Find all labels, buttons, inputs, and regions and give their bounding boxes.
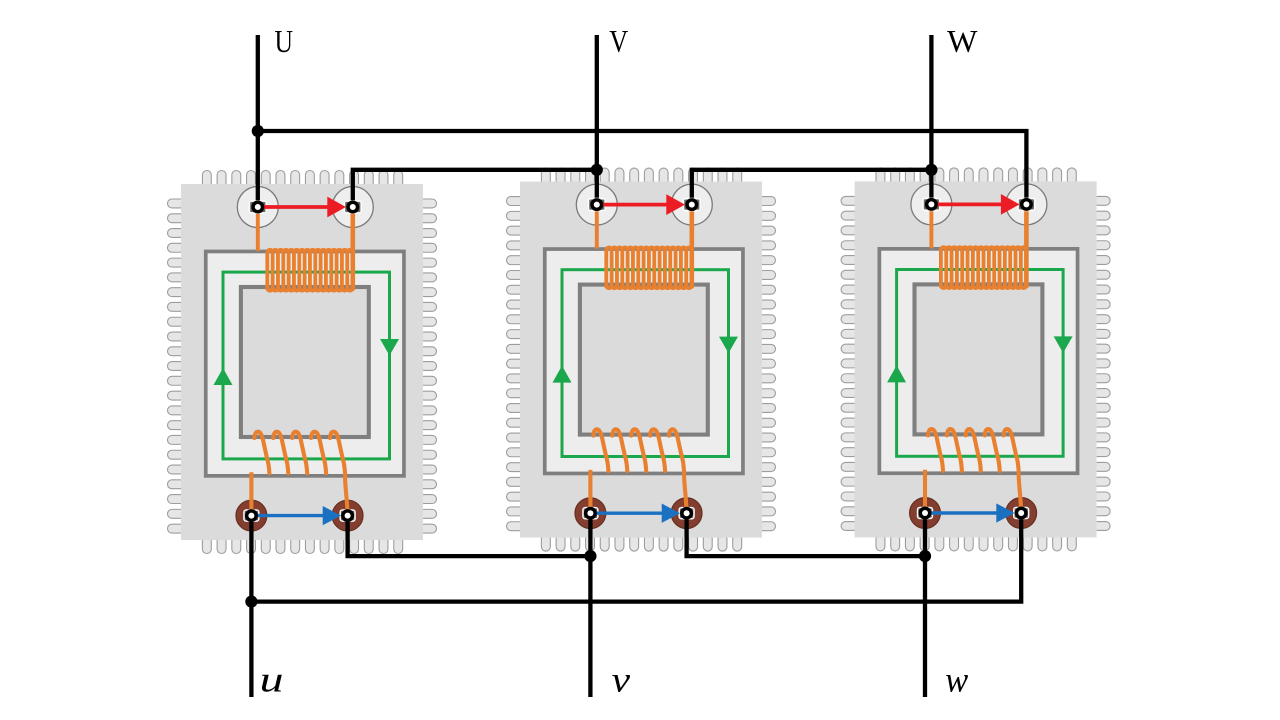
flux path loop T3 (green): [897, 270, 1064, 457]
primary winding lead right T1: [350, 207, 355, 289]
flux path loop T1 (green): [223, 272, 390, 459]
core T3 lamination teeth: [841, 168, 1110, 551]
junction U/bus: [252, 125, 264, 137]
node T3 primary left: [925, 198, 938, 211]
primary voltage arrow T2 (red): [597, 194, 685, 215]
terminal pad T2 primary left: [588, 198, 606, 212]
node T3 secondary left: [919, 507, 932, 520]
core T2 body: [520, 182, 762, 538]
core T1 center limb window: [241, 287, 369, 437]
terminal pad T3 primary left: [922, 198, 940, 212]
svg-text:u: u: [260, 660, 284, 700]
secondary winding lead left T1: [249, 472, 253, 515]
svg-text:V: V: [609, 23, 628, 59]
primary winding lead right T3: [1024, 204, 1029, 286]
wire T3 secondary to u: [251, 513, 1021, 602]
wire phase u output: [249, 516, 253, 697]
terminal pad T3 secondary right: [1013, 507, 1029, 520]
svg-text:w: w: [945, 660, 968, 700]
flux arrow up (left limb) T3: [887, 365, 906, 382]
junction w node: [919, 550, 931, 562]
node T1 secondary left: [245, 509, 258, 522]
primary winding lead left T1: [256, 207, 260, 251]
svg-text:v: v: [612, 660, 630, 700]
junction V node: [591, 164, 603, 176]
primary voltage arrow T1 (red): [258, 197, 346, 218]
secondary winding lead left T2: [588, 470, 592, 513]
flux arrow down (right limb) T2: [719, 337, 738, 354]
node T3 secondary right: [1015, 507, 1028, 520]
svg-text:U: U: [275, 23, 294, 59]
wire phase v output: [588, 513, 592, 697]
primary terminal circle right T1: [332, 187, 373, 228]
secondary voltage arrow T1 (blue): [251, 506, 341, 525]
node T1 secondary right: [341, 509, 354, 522]
primary terminal circle left T2: [576, 184, 617, 225]
wire T2 secondary to w: [687, 513, 925, 556]
primary winding lead left T3: [929, 204, 933, 248]
secondary terminal circle right T1: [332, 500, 363, 531]
junction u node: [245, 596, 257, 608]
secondary terminal circle left T3: [910, 498, 941, 529]
primary winding lead right T2: [689, 205, 694, 287]
secondary terminal circle right T2: [671, 498, 702, 529]
junction v node: [584, 550, 596, 562]
node T3 primary right: [1020, 198, 1033, 211]
primary terminal circle left T3: [911, 184, 952, 225]
terminal pad T1 primary right: [344, 200, 362, 214]
terminal pad T3 secondary left: [917, 507, 933, 520]
primary terminal circle left T1: [237, 187, 278, 228]
node T2 secondary right: [680, 507, 693, 520]
secondary voltage arrow T3 (blue): [925, 503, 1015, 522]
secondary terminal circle left T1: [236, 500, 267, 531]
secondary winding coil T1: [254, 432, 347, 516]
flux arrow down (right limb) T3: [1054, 336, 1073, 353]
terminal pad T3 primary right: [1017, 198, 1035, 212]
wire phase W input: [929, 35, 933, 204]
secondary winding coil T2: [593, 429, 686, 513]
core T1 body: [181, 184, 423, 540]
node T1 primary left: [251, 201, 264, 214]
terminal pad T2 secondary left: [582, 507, 598, 520]
core T2 center limb window: [580, 285, 708, 435]
node T2 primary right: [685, 198, 698, 211]
core T1 window ring: [206, 251, 404, 475]
terminal pad T2 primary right: [683, 198, 701, 212]
flux arrow up (left limb) T2: [553, 366, 572, 383]
wire phase w output: [923, 513, 927, 697]
wire T1 secondary to v: [348, 516, 591, 557]
primary winding coil T3: [941, 247, 1026, 288]
secondary terminal circle left T2: [575, 498, 606, 529]
secondary winding coil T3: [928, 429, 1021, 513]
secondary voltage arrow T2 (blue): [590, 504, 680, 523]
primary winding lead left T2: [595, 205, 599, 249]
core T1 lamination teeth: [168, 171, 437, 554]
wire bus U to T3 right terminal: [258, 131, 1027, 204]
core T3 body: [855, 181, 1097, 537]
wire phase V input: [595, 35, 599, 205]
primary voltage arrow T3 (red): [931, 194, 1019, 215]
flux arrow up (left limb) T1: [214, 368, 233, 385]
core T2 window ring: [545, 249, 743, 473]
node T1 primary right: [346, 201, 359, 214]
primary terminal circle right T2: [671, 184, 712, 225]
core T3 center limb window: [915, 284, 1043, 434]
primary winding coil T1: [267, 250, 352, 291]
node T2 primary left: [590, 198, 603, 211]
core T3 window ring: [879, 249, 1077, 473]
flux arrow down (right limb) T1: [380, 339, 399, 356]
wire T1 right terminal to V: [353, 170, 597, 207]
secondary terminal circle right T3: [1006, 498, 1037, 529]
svg-text:W: W: [947, 23, 978, 59]
terminal pad T1 secondary left: [243, 509, 259, 522]
wire phase U input: [256, 35, 260, 207]
terminal pad T1 secondary right: [339, 509, 355, 522]
flux path loop T2 (green): [562, 270, 729, 457]
node T2 secondary left: [584, 507, 597, 520]
terminal pad T1 primary left: [249, 200, 267, 214]
junction W node: [925, 164, 937, 176]
primary winding coil T2: [606, 247, 691, 288]
core T2 lamination teeth: [507, 168, 776, 551]
primary terminal circle right T3: [1006, 184, 1047, 225]
secondary winding lead left T3: [923, 470, 927, 513]
terminal pad T2 secondary right: [678, 507, 694, 520]
wire T2 right terminal to W: [692, 170, 932, 205]
